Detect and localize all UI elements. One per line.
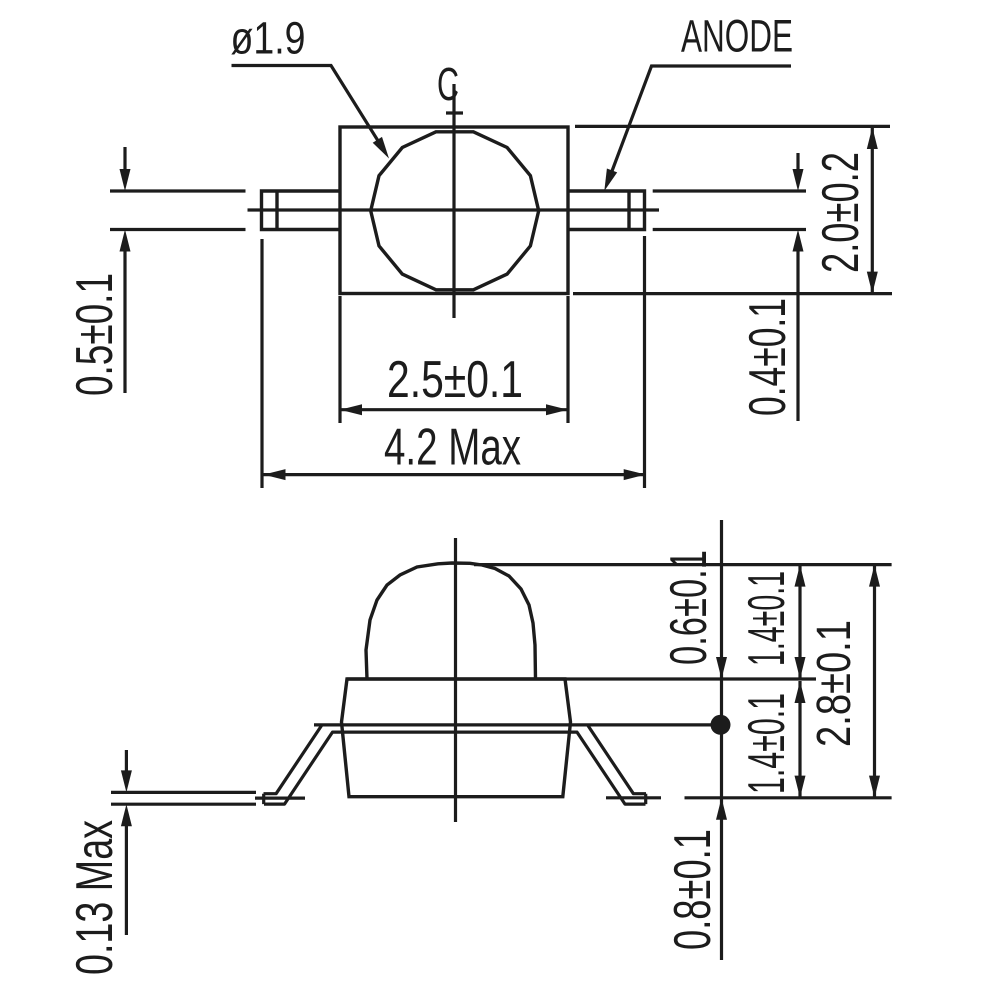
svg-text:C: C	[437, 58, 459, 110]
svg-text:ø1.9: ø1.9	[231, 13, 306, 64]
svg-text:0.8±0.1: 0.8±0.1	[664, 829, 722, 950]
svg-text:0.6±0.1: 0.6±0.1	[660, 550, 718, 665]
svg-text:2.8±0.1: 2.8±0.1	[808, 620, 861, 747]
svg-text:4.2 Max: 4.2 Max	[384, 419, 521, 477]
svg-text:0.5±0.1: 0.5±0.1	[66, 273, 124, 396]
svg-text:1.4±0.1: 1.4±0.1	[738, 693, 796, 794]
svg-text:2.5±0.1: 2.5±0.1	[387, 351, 523, 409]
svg-text:ANODE: ANODE	[681, 11, 793, 62]
svg-text:1.4±0.1: 1.4±0.1	[738, 571, 796, 666]
svg-text:0.4±0.1: 0.4±0.1	[739, 298, 797, 416]
svg-text:2.0±0.2: 2.0±0.2	[812, 152, 870, 273]
svg-text:0.13 Max: 0.13 Max	[66, 820, 124, 975]
